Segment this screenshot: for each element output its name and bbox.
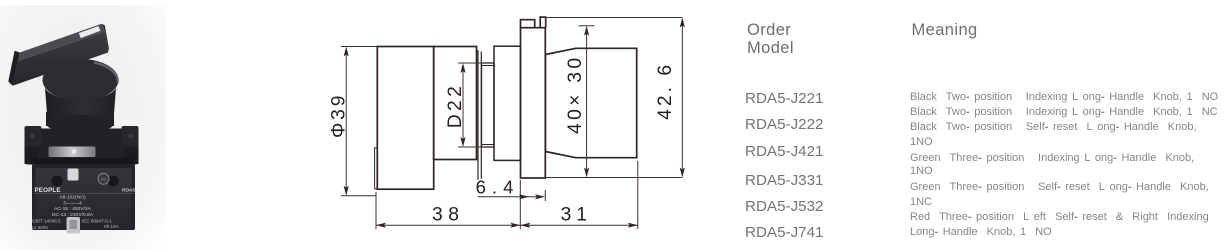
bottom reference line — [545, 177, 682, 179]
bezel shadow under strip — [30, 158, 134, 165]
metal clip — [67, 217, 81, 234]
svg-text:40× 30: 40× 30 — [565, 55, 586, 134]
contact block — [32, 164, 135, 230]
handle top face — [18, 24, 105, 61]
handle front face — [13, 32, 109, 86]
knob cap (upper tier of cylinder) — [43, 59, 119, 101]
31 arrows — [520, 223, 530, 228]
arrowheads — [344, 18, 685, 228]
svg-text:D22: D22 — [445, 83, 466, 129]
technical drawing — [0, 0, 760, 250]
svg-text:6.4: 6.4 — [476, 176, 520, 197]
knob base — [434, 47, 477, 160]
D22 arrows — [460, 63, 465, 73]
dim 42.6 top reference line — [546, 17, 683, 19]
product photo: selector switch — [0, 0, 310, 250]
meaning lines — [910, 91, 1218, 103]
handle left end cap — [8, 51, 19, 86]
adapter bezel — [494, 46, 521, 160]
dim 40x30 line — [586, 29, 588, 174]
handle white indicator stripe — [79, 26, 101, 39]
cap rim highlight — [94, 63, 118, 84]
model list — [745, 90, 824, 107]
spec label text — [52, 195, 94, 219]
skirt lines — [478, 50, 481, 180]
svg-text:31: 31 — [561, 204, 592, 225]
dim Phi39 extension lines — [341, 47, 377, 196]
svg-text:Φ39: Φ39 — [329, 93, 350, 138]
bezel corner posts — [25, 126, 42, 146]
38 arrows — [376, 223, 386, 228]
bezel square flange — [25, 129, 139, 165]
40x30 arrows — [584, 26, 589, 36]
dim D22 extension lines — [458, 63, 484, 147]
dim D22 line — [462, 66, 464, 144]
divider line — [34, 193, 134, 195]
shaft D22 — [482, 63, 495, 147]
operating plunger — [68, 169, 79, 181]
tab 1 — [521, 20, 535, 28]
knob handle side view — [377, 47, 433, 190]
dim Phi39 line — [345, 50, 347, 192]
42.6 arrows — [680, 18, 685, 28]
dim 6.4 leader — [478, 190, 546, 201]
order table header — [747, 21, 794, 57]
bezel silver strip — [49, 147, 96, 158]
panel plate — [521, 28, 546, 178]
dimension texts — [329, 55, 677, 226]
dim 40x30 top extension — [579, 25, 595, 27]
contact block — [545, 48, 636, 157]
Phi39 arrows — [344, 47, 349, 57]
terminal screws on top of block — [52, 176, 63, 187]
bezel screw holes — [30, 134, 35, 139]
handle tip sliver — [375, 148, 378, 189]
photo background — [0, 5, 166, 250]
tab 2 — [540, 17, 546, 28]
svg-text:42. 6: 42. 6 — [655, 62, 676, 120]
dim 42.6 line — [681, 21, 683, 174]
dim 38/31 extension lines — [376, 161, 638, 229]
dim 38/31 line — [376, 224, 638, 226]
svg-text:38: 38 — [432, 204, 464, 225]
handle right end cap — [102, 24, 109, 53]
cert circle — [98, 173, 109, 184]
6.4 arrows — [519, 194, 529, 199]
knob cylinder body — [45, 88, 116, 130]
